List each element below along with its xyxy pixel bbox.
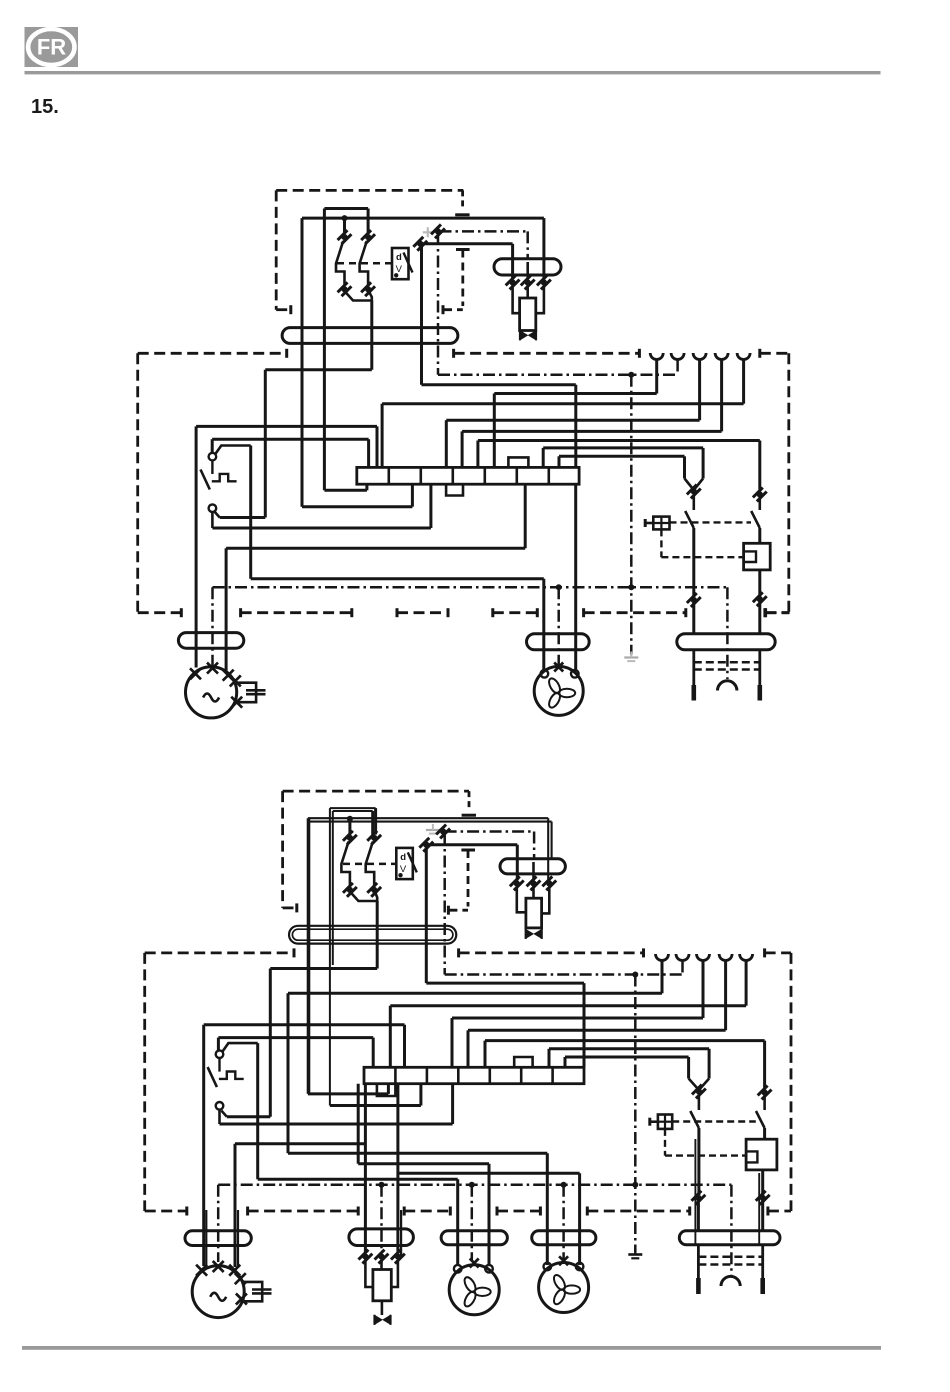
wire: main supply line [302, 217, 544, 220]
contact: solenoid plug centre [526, 262, 529, 280]
wire: main supply line (bottom) [308, 817, 548, 819]
dash-dot earth spine [213, 586, 728, 589]
thermal cutout arc (bottom) [721, 1276, 740, 1286]
wire + lever: left column (bottom) [698, 1095, 701, 1111]
terminal strip X0 [357, 467, 579, 484]
lower tab of strip (bottom) [377, 1084, 396, 1096]
right dashed enclosure [758, 349, 761, 358]
wire: hook to terminal strip via K1 left leg [324, 489, 367, 492]
wire: switch upper terminal to strip [212, 438, 368, 441]
dash-dot control line to solenoid centre (bottom) [436, 824, 450, 838]
wire: funnel feed A [543, 446, 703, 449]
wire: strip to motor (right lead) [524, 484, 527, 548]
wire: feed to right contact column (bottom) [485, 1039, 765, 1042]
wire: socket 4 to strip [720, 360, 723, 432]
door switch S1' lower terminal [216, 1102, 224, 1110]
overload relay F1' [746, 1139, 777, 1170]
solenoid coil Y2 [380, 1260, 383, 1270]
wire: branch to solenoid cluster (left feed) [422, 242, 513, 245]
contact: funnel output (bottom) [692, 1084, 706, 1098]
svg-text:d: d [400, 852, 406, 863]
overload relay F1 [744, 543, 771, 570]
footer rule [22, 1346, 881, 1350]
wire: solenoid right feed (bottom) [547, 818, 549, 880]
wire: across to door switch branch (bottom) [270, 967, 377, 970]
fan2 terminals [544, 1263, 552, 1271]
wire: socket 3 to strip (bottom) [702, 961, 705, 1019]
wire: solenoid left lead [513, 286, 520, 314]
dash-dot: socket 2 earth link (bottom) [681, 961, 684, 975]
connector plug (right unit, bottom) [679, 1231, 780, 1245]
dashed enclosure bottom edge segments [138, 611, 182, 614]
connector plug X1 (main) [282, 328, 458, 344]
dashed linkage to levers (bottom) [672, 1120, 756, 1122]
wire: bypass to fan (left lead) [251, 577, 544, 580]
door switch S1 lever [211, 461, 213, 475]
connector plug (fan1) [441, 1231, 507, 1245]
connector plug (motor, bottom) [185, 1231, 251, 1246]
wire + lever: right column (bottom) [763, 1095, 766, 1110]
dash-dot: socket 2 earth link [676, 360, 679, 375]
contact on left column [687, 593, 701, 607]
wire: funnel feed A (bottom) [549, 1047, 709, 1050]
svg-text:15.: 15. [31, 96, 59, 118]
valve symbol of Y1' [526, 930, 533, 939]
contact: solenoid plug centre (bottom) [532, 862, 535, 880]
door switch S1 upper terminal [209, 453, 217, 461]
valve symbol of Y1 [520, 331, 527, 340]
contactor K1 top bar [324, 207, 368, 210]
wire: branch to solenoid cluster left (bottom) [428, 843, 518, 846]
left dashed enclosure (bottom diagram) [145, 952, 294, 955]
connector plug (fan) [527, 634, 590, 650]
node: spine junction at fan [556, 584, 562, 590]
wire: feed to right contact column [478, 439, 760, 442]
door switch S1 lower terminal [209, 504, 217, 512]
fan motor M2 [534, 666, 583, 715]
wire: left drop of supply [301, 218, 304, 507]
contact: solenoid plug right [537, 275, 551, 289]
dashed linkage to levers [670, 521, 752, 523]
mechanical linkage (dashed) of K1' [343, 863, 396, 866]
contact on branch to solenoid cluster [413, 237, 427, 251]
contact: solenoid plug left (bottom) [510, 876, 524, 890]
connector plug (solenoid unit) [349, 1229, 414, 1246]
lower tab of strip [446, 484, 463, 495]
wire + lever: right column [758, 497, 761, 510]
wire: solenoid right drop + fan2 right lead [396, 1084, 399, 1254]
wire: hook to strip via K1' left leg [330, 1104, 421, 1107]
wire: K1 output down to plug [370, 301, 373, 370]
terminal strip X0' [364, 1067, 584, 1083]
node: junction on supply line [342, 215, 348, 221]
wire: strip to fan (right lead) [574, 484, 577, 670]
dashed stub with T-ends (mid, bottom diagram) [461, 849, 475, 852]
contactor K1' contact chain B [371, 811, 374, 835]
wire: strip to fan1 right lead [357, 1084, 360, 1164]
window/position switch symbol [653, 517, 669, 530]
bottom diagram: upper dashed enclosure [283, 790, 469, 793]
solenoid unit right lead [391, 1260, 398, 1287]
wire: socket 5 to strip (bottom) [745, 961, 748, 1006]
run capacitor C1 [237, 683, 257, 703]
contact on left column (bottom) [691, 1191, 705, 1205]
window/position switch symbol (bottom) [658, 1115, 672, 1129]
fan1 terminals [454, 1265, 462, 1273]
svg-text:FR: FR [37, 35, 66, 60]
wire: across to door-switch branch [265, 368, 372, 371]
fan terminals [541, 670, 549, 678]
wire: switch upper terminal to strip (bottom) [218, 1036, 373, 1039]
door switch S1' upper terminal [216, 1050, 224, 1058]
door switch S1 frame wire [195, 426, 198, 667]
connector plug (motor) [178, 633, 243, 649]
wire: switch lower terminal to strip [211, 512, 214, 528]
raised terminal on strip (bottom) [514, 1057, 532, 1067]
door switch S1' frame wire [202, 1025, 205, 1266]
wire: funnel feed B [559, 455, 685, 458]
door switch pulse symbol (bottom) [219, 1072, 244, 1079]
wire: hook to terminal strip (left) [302, 505, 412, 508]
connector plug (fan2) [532, 1231, 596, 1245]
dashed linkage to relay (bottom) [664, 1129, 666, 1156]
wire: switch bypass loop [216, 446, 251, 454]
wire: funnel convergence [685, 479, 694, 491]
terminal tick of upper dashed enclosure [462, 814, 476, 817]
raised terminal on strip [508, 457, 528, 467]
wire: solenoid right lead [536, 286, 544, 314]
mid dashed boundary segment [452, 349, 455, 358]
connector plug X1' (main, bottom) [289, 926, 456, 944]
contactor K1 contact chain B [367, 209, 370, 235]
solenoid unit left lead [365, 1260, 373, 1287]
terminal tick of upper dashed enclosure [455, 213, 469, 216]
dash-dot: down to earth point (bottom) [634, 975, 637, 1253]
door switch S1' lever [218, 1058, 220, 1072]
dash-dot: spine to fan1 [471, 1185, 474, 1261]
contact on right column (bottom) [757, 1085, 771, 1099]
node: spine junctions (bottom) [379, 1182, 385, 1188]
contactor K1' top bar (doubled) [330, 807, 376, 809]
solenoid coil Y1 [526, 286, 529, 299]
header rule [25, 71, 881, 74]
contact on right column [753, 487, 767, 501]
contact on branch to solenoid cluster (bottom) [419, 838, 433, 852]
wire: socket 1 to fan2 via long route [661, 961, 664, 994]
wire: plug output down to strip (bottom right) [425, 847, 428, 983]
compressor motor M1' [192, 1266, 244, 1318]
wire: hook to strip (bottom left) [308, 1092, 389, 1095]
thermal cutout arc [718, 681, 737, 691]
wire: plug output down to strip (right) [420, 244, 423, 385]
compressor motor M1 [186, 667, 237, 718]
wire + lever: left column [692, 495, 695, 511]
contacts of solenoid unit [358, 1249, 372, 1263]
motor terminal crosses (bottom) [196, 1265, 207, 1276]
dashed pair below right plug [694, 661, 760, 664]
earth symbol (bottom) [634, 1250, 636, 1255]
mid dashed boundary segment (bottom diagram) [457, 948, 460, 957]
connector plug (solenoid, bottom) [500, 859, 565, 874]
socket row on boundary (bottom) [656, 954, 669, 961]
door switch pulse symbol [212, 474, 237, 481]
node: junction on supply (bottom) [347, 816, 353, 822]
doubled wire pair near motor [205, 1210, 207, 1266]
wire: funnel feed B (bottom) [565, 1056, 689, 1059]
right unit terminal stubs (bottom) [697, 1245, 700, 1278]
connector plug (solenoid) X2 [494, 259, 561, 275]
wire: K1' left leg down (doubled) [329, 808, 331, 1105]
dashed stub with T-ends (mid) [456, 248, 470, 251]
faint earth mark [426, 829, 440, 831]
mechanical linkage (dashed) of K1 [337, 262, 392, 265]
svg-text:d: d [396, 252, 402, 263]
FR language badge [25, 27, 79, 67]
node: dash-dot junction (bottom) [632, 972, 638, 978]
doubled wire near solenoid [400, 1210, 402, 1256]
dashed linkage to relay [660, 529, 662, 557]
right unit terminal stubs [692, 650, 695, 685]
wire: K1' output to plug [376, 901, 379, 969]
dash-dot control line to solenoid centre [431, 224, 445, 238]
node: spine junction at earth drop [628, 584, 634, 590]
wire: socket 4 to strip (bottom) [724, 961, 727, 1031]
valve symbol of Y2 [381, 1301, 384, 1315]
wire: solenoid right lead (bottom) [542, 886, 550, 913]
wire: solenoid right feed from supply [542, 218, 545, 279]
wire: switch lower terminal to strip (bottom) [218, 1110, 221, 1125]
wire: strip to motor right lead (bottom) [364, 1084, 367, 1254]
contact: solenoid plug left [505, 275, 519, 289]
contact: solenoid plug right (bottom) [542, 876, 556, 890]
contactor K1' contact chain A [348, 819, 351, 835]
relay coil dV (bottom) [396, 848, 413, 879]
wire: socket 5 to strip [742, 360, 745, 404]
faint grid cross [423, 227, 433, 237]
wire: left drop of supply (bottom) [307, 818, 311, 1094]
left dashed enclosure (top edge) [138, 352, 287, 355]
dash-dot earth spine (bottom) [218, 1183, 731, 1186]
fan motor M3 [539, 1263, 589, 1313]
wire: funnel convergence (bottom) [689, 1079, 699, 1091]
dash-dot: spine to solenoid centre [380, 1185, 383, 1253]
left dashed enclosure (left edge) [136, 353, 139, 612]
top diagram: upper dashed enclosure [276, 189, 463, 192]
wire: socket 3 to strip [698, 360, 701, 421]
fan motor M2' [449, 1265, 499, 1315]
run capacitor C1' [242, 1282, 263, 1301]
socket row on boundary [650, 353, 663, 360]
contactor K1 contact chain A [343, 218, 346, 234]
right dashed enclosure (bottom diagram) [763, 948, 766, 957]
wire: K1 left leg down [323, 209, 326, 491]
wire: socket 1 to strip [655, 360, 658, 394]
faint earth symbol [624, 656, 638, 658]
node: dash-dot junction [628, 372, 634, 378]
wire: solenoid left lead (bottom) [517, 886, 526, 912]
dash-dot: down to earth point [630, 375, 633, 655]
solenoid coil Y1' [532, 886, 535, 898]
dashed boundary bottom segments (bottom diagram) [145, 1210, 187, 1213]
relay coil dV (delay device U1) [392, 248, 409, 279]
wire: switch bypass loop (bottom) [223, 1043, 258, 1051]
connector plug (right unit) [677, 634, 775, 650]
motor terminal crosses [190, 668, 201, 679]
wire: bypass to fan1 left lead [258, 1178, 458, 1181]
dash-dot: spine to fan2 [562, 1185, 565, 1260]
contact: funnel output [687, 484, 701, 498]
dashed pair below right plug (bottom) [698, 1256, 762, 1259]
